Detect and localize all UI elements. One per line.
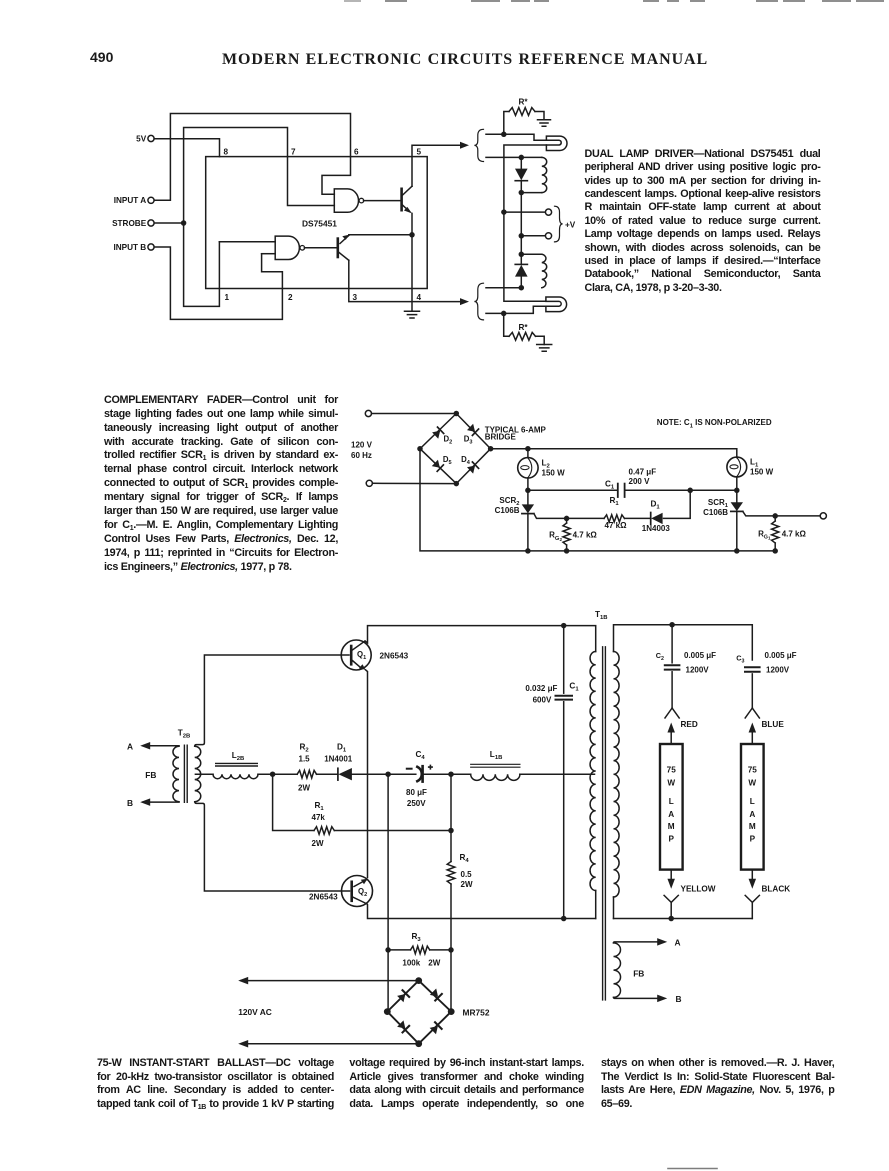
svg-text:D3: D3 [464,435,473,446]
svg-text:2W: 2W [428,958,440,967]
wire Q1 collector to top rail [365,626,596,652]
svg-text:R2: R2 [300,743,310,754]
wire to bridge left corner [387,950,389,1012]
ground pin 4 [405,311,420,318]
node C4 right / R4 branch [448,771,454,777]
wire +V lower with terminal [521,235,545,237]
svg-text:L2B: L2B [232,751,245,762]
svg-text:1.5: 1.5 [299,754,311,763]
connector YELLOW socket [664,895,678,918]
wire SCR2 gate [534,514,604,519]
svg-text:R3: R3 [412,932,422,943]
transistor Q2 (2N6543 lower) [342,876,373,907]
wire to keep-alive resistor R* bottom [504,313,509,336]
svg-text:0.032 μF: 0.032 μF [525,684,557,693]
svg-text:R1: R1 [315,801,325,812]
transformer T2B core [184,745,187,802]
svg-text:A: A [749,810,755,819]
svg-text:YELLOW: YELLOW [681,885,716,894]
lamp box 1 (75 W LAMP) [660,744,683,870]
wire junction down to D1 [664,490,691,518]
node R3 right [448,947,454,953]
resistor R1 (ballast) [314,827,334,835]
svg-text:200 V: 200 V [629,477,651,486]
svg-text:60 Hz: 60 Hz [351,451,372,460]
terminal AC top [365,410,371,416]
wire pin 6 to gate U1A input [322,157,351,195]
svg-text:C2: C2 [656,651,664,662]
svg-text:+V: +V [565,221,576,230]
winding FB (T1B) [614,943,621,998]
node L1 bottom [734,488,740,494]
svg-text:BLACK: BLACK [762,885,791,894]
connector BLUE socket [745,708,759,718]
svg-text:W: W [748,779,756,788]
node MR752 left [384,1008,391,1015]
wire right rail from T1B [614,625,753,660]
svg-text:L: L [669,797,674,806]
IC body DS75451 [206,157,428,289]
arrowhead to lamp 2 connector [460,298,469,305]
node bridge top [454,411,460,417]
transistor Q1 (2N6543 upper) [341,640,371,670]
svg-text:2: 2 [288,293,293,302]
brace +V [555,206,563,242]
node L2B/R2/R1 [270,771,276,777]
running head title [222,52,708,68]
node C1 bottom rail [561,916,567,922]
arrow feedback B out [143,801,179,803]
relay coil 2 [521,253,542,255]
wire U1B output to Q2 base [304,247,337,249]
diode MR752 lower-left [397,1020,409,1032]
AND gate U1B [275,236,299,259]
svg-text:STROBE: STROBE [112,219,147,228]
SCR1 [736,490,738,502]
svg-text:120V AC: 120V AC [238,1007,272,1017]
svg-text:INPUT A: INPUT A [114,196,147,205]
svg-text:A: A [668,810,674,819]
wire connector to lamp 1 top [486,134,546,140]
svg-text:C106B: C106B [495,506,520,515]
svg-text:C1: C1 [605,480,615,491]
lamp L2 [527,449,529,458]
wire lamp 1 return [504,145,547,212]
svg-text:W: W [667,779,675,788]
node lamp1 return rail [668,916,674,922]
resistor RG1 [774,516,776,521]
svg-text:0.5: 0.5 [461,870,473,879]
svg-text:L: L [750,797,755,806]
node emitter/ground junction [409,232,415,238]
wire Q2 collector to bottom rail [367,904,596,919]
wire strobe to pin 7 [184,128,288,224]
svg-text:RG1: RG1 [758,530,771,541]
capacitor C1 0.032uF [563,626,565,694]
wire AC line bottom arrow [241,1043,419,1045]
svg-text:FB: FB [145,770,156,780]
resistor R1 (fader) [604,515,625,522]
wire Q2 collector pin 3 to lamp 2 arrow [349,260,465,301]
resistor RG2 [566,518,568,523]
svg-text:INPUT B: INPUT B [113,243,146,252]
svg-text:RG2: RG2 [549,531,562,542]
svg-text:3: 3 [353,293,358,302]
caption: DUAL LAMP DRIVER [585,148,821,295]
diode D1 (fader) [650,513,652,525]
wire R1 branch down [273,774,314,830]
ground R* bottom [537,345,552,352]
arrowhead to lamp 1 connector [460,142,469,149]
node bridge left [417,446,423,452]
wire to keep-alive resistor R* top [504,112,509,135]
diode MR752 upper-left [397,990,409,1002]
arrow YELLOW lamp lead [670,870,672,882]
resistor R2 [297,770,316,778]
svg-text:MR752: MR752 [463,1007,490,1017]
svg-text:75: 75 [748,765,758,774]
svg-text:47k: 47k [312,813,326,822]
svg-text:L1B: L1B [490,750,503,761]
node SCR2 bottom [525,548,531,554]
terminal INPUT A [114,196,154,205]
bridge rectifier diamond [420,414,491,484]
svg-text:2N6543: 2N6543 [380,651,409,660]
core L1B [471,764,520,767]
capacitor C2 [671,625,673,663]
svg-text:M: M [749,822,756,831]
svg-text:1200V: 1200V [766,666,790,675]
wire C4 node down through R4 [450,774,452,861]
wire R3 right lead [430,949,451,951]
svg-text:0.47 μF: 0.47 μF [629,467,657,476]
arrow feedback A out [143,745,179,747]
svg-text:250V: 250V [407,799,426,808]
arrow BLUE lamp lead [749,723,757,733]
relay coil 1 [542,157,547,192]
node SCR1 bottom [734,548,740,554]
svg-text:M: M [668,822,675,831]
svg-text:4.7 kΩ: 4.7 kΩ [782,530,807,539]
wire L1B to T1B tap [520,773,595,775]
svg-text:D1: D1 [337,743,347,754]
svg-text:DS75451: DS75451 [302,219,337,229]
wire R4 to R3 [450,884,452,950]
wire relay1 to +V rail [520,193,522,236]
node gate RG2 [564,516,570,522]
terminal +V upper [545,209,551,215]
svg-text:0.005 μF: 0.005 μF [765,651,797,660]
wire STROBE [154,222,183,224]
svg-text:D1: D1 [651,500,661,511]
connector BLACK socket [745,895,759,918]
SCR2 [527,490,529,504]
svg-text:BLUE: BLUE [762,720,785,729]
wire C4 to L1B [424,773,471,775]
connector brace top [474,129,483,161]
svg-text:R4: R4 [460,853,470,864]
wire +V rail down to lamp 2 top [504,212,546,301]
bridge rectifier MR752 diamond [387,981,451,1044]
resistor R4 [447,862,455,885]
wire FB A arrow [614,942,660,943]
svg-text:2W: 2W [298,783,310,792]
svg-text:T1B: T1B [595,610,608,621]
AND gate U1A [334,189,358,212]
node relay2 bottom [519,285,525,291]
terminal gate [820,513,826,519]
lamp box 2 (75 W LAMP) [741,744,764,870]
diode MR752 upper-right [430,988,442,1000]
svg-text:100k: 100k [402,958,420,967]
wire U1A output to Q1 base [364,200,402,202]
svg-text:2W: 2W [461,880,473,889]
wire shared emitter line [349,234,412,236]
wire to relay 2 top [520,236,522,255]
wire pin 1 to gate U1B input [219,241,275,243]
svg-text:7: 7 [291,148,296,157]
wire R1 to D1 [625,517,651,519]
wire pin 7 to gate U1A input [288,157,335,206]
node MR752 bottom [415,1040,422,1047]
terminal INPUT B [113,243,154,252]
wire 5V to pin 8 [154,139,219,157]
capacitor C4 [417,767,422,781]
node +V lower [519,233,525,239]
wire T2B bottom to Q2 base [195,802,350,891]
wire T2B center tap to L2B [195,773,213,775]
node RG1 bottom [772,548,778,554]
node MR752 right [448,1008,455,1015]
wire T2B top to Q1 base [195,655,349,746]
lamp 1 (incandescent) [546,136,567,150]
ground R* top [538,120,551,126]
node bridge right [488,446,494,452]
node relay1 bottom [519,190,525,196]
node main line / bridge branch [385,771,391,777]
svg-text:150 W: 150 W [750,468,774,477]
svg-text:120 V: 120 V [351,441,373,450]
node R1/R4 [448,828,454,834]
transformer T2B left winding [173,746,179,801]
wire R1 to R4 node [334,830,451,832]
svg-text:C4: C4 [416,750,426,761]
svg-text:Q2: Q2 [358,887,367,898]
capacitor C3 [745,667,760,671]
svg-text:75: 75 [667,765,677,774]
svg-text:R*: R* [518,98,528,107]
wire top rail [491,449,737,458]
capacitor C1 (fader) [617,484,619,497]
wire bridge left to bottom rail [420,449,775,551]
svg-text:1N4001: 1N4001 [324,754,353,763]
svg-text:D2: D2 [444,435,453,446]
node R3 left [385,947,391,953]
node relay 1 top [519,155,525,161]
node lamp1 return at +V [501,209,507,215]
wire pin 2 to gate U1B input [262,253,276,255]
lamp L1 [727,457,747,477]
node C1/D1 junction [687,488,693,494]
node L2 bottom / C1 line [525,488,531,494]
svg-text:D5: D5 [443,455,452,466]
resistor R* (top) [509,108,535,116]
top edge scan marks [345,0,883,2]
wire bridge branch down [387,774,389,950]
wire strobe to pin 1 [184,223,220,306]
wire Q1 emitter to ground node [411,213,413,234]
node lamp2 return / R* [501,311,507,317]
node C2 top [669,622,675,628]
svg-text:B: B [676,994,682,1004]
wire C1 right [626,489,737,491]
svg-text:Q1: Q1 [357,650,366,661]
svg-text:R*: R* [518,323,528,332]
label C4 polarity [407,768,412,770]
svg-text:BRIDGE: BRIDGE [485,433,517,442]
arrow RED lamp lead [667,723,675,733]
wire Q1 collector to pin 5 lamp arrow [412,145,465,186]
diode D2 [432,427,444,439]
diode D5 [432,460,444,472]
svg-text:5: 5 [417,148,422,157]
svg-text:150 W: 150 W [542,469,566,478]
svg-text:NOTE: C1 IS NON-POLARIZED: NOTE: C1 IS NON-POLARIZED [657,418,772,429]
caption col 3 [601,1057,835,1111]
wire R2 to D1 [317,773,338,775]
node C1 top (ballast) [561,623,567,629]
wire connector to relay 1 [486,156,542,158]
diode D3 [467,424,479,436]
node bridge bottom [454,481,460,487]
transformer T1B left winding [590,652,596,891]
node RG2 bottom [564,548,570,554]
wire lamp 2 return to connector [486,306,546,313]
transformer T1B right winding [614,651,620,897]
page number [90,50,113,64]
svg-text:C3: C3 [736,654,744,665]
terminal 5V [136,134,154,143]
transistor Q2 (lower output) [338,235,349,260]
connector RED socket [665,708,679,718]
svg-text:4: 4 [417,293,422,302]
svg-text:4.7 kΩ: 4.7 kΩ [573,531,598,540]
wire AC bottom to bridge [373,482,457,484]
wire relay1 bottom [521,192,542,194]
wire relay2 bottom to connector [486,287,521,289]
svg-text:1: 1 [225,293,230,302]
transformer T2B right winding [195,746,201,801]
svg-text:8: 8 [224,148,229,157]
svg-text:A: A [675,937,681,947]
wire SCR1 gate [743,511,820,516]
wire bottom rail to lamps [614,918,753,920]
node lamp1/R* junction [501,132,507,138]
wire R* to ground [535,112,544,120]
wire AC top to bridge [372,413,457,415]
diode D-relay1 (across solenoid) [515,157,528,192]
arrow BLACK lamp lead [751,870,753,882]
node strobe junction [181,220,187,226]
wire D1 to C4 [352,773,416,775]
caption col 2 [349,1057,584,1111]
svg-text:P: P [750,835,756,844]
wire INPUT A to pin 6 [154,114,350,201]
wire R* bottom to ground [536,336,545,344]
svg-text:P: P [668,835,674,844]
resistor R* (bottom) [509,332,536,340]
terminal +V lower [545,233,551,239]
wire FB B arrow [614,997,660,998]
svg-text:C106B: C106B [703,508,728,517]
wire R3 left lead [388,949,410,951]
caption: 75-W INSTANT-START BALLAST col 1 [97,1057,334,1111]
wire node to R2 [273,773,298,775]
transistor Q1 (upper output) [402,186,412,213]
wire C1 line left [528,489,617,491]
node relay2 top [519,252,525,257]
svg-text:2W: 2W [312,839,324,848]
svg-text:5V: 5V [136,134,147,143]
wire INPUT B to pin 2 [154,247,282,319]
terminal STROBE [112,219,154,228]
svg-text:D4: D4 [461,455,471,466]
svg-text:0.005 μF: 0.005 μF [684,651,716,660]
svg-text:6: 6 [354,148,359,157]
svg-text:A: A [127,741,133,751]
transformer T1B core [603,647,606,1000]
wire to bridge right corner [450,950,452,1012]
connector brace bottom [474,283,483,320]
diode D-relay2 (across solenoid) [515,254,528,287]
wire +V upper with terminal [504,211,545,213]
node MR752 top [415,977,422,984]
terminal AC bottom [366,480,372,486]
svg-text:47 kΩ: 47 kΩ [605,521,628,530]
svg-text:FB: FB [633,969,644,979]
caption: COMPLEMENTARY FADER [104,394,338,575]
svg-text:600V: 600V [533,696,552,705]
inductor L2B [213,774,258,779]
wire pin 4 to ground [411,235,413,311]
svg-text:1N4003: 1N4003 [642,524,671,533]
bottom edge scan mark [668,1168,717,1170]
wire AC line top arrow [241,980,419,982]
wire L2B to node [258,773,273,775]
node gate RG1 [772,513,778,519]
svg-text:1200V: 1200V [686,666,710,675]
inductor L1B [471,774,520,780]
svg-text:2N6543: 2N6543 [309,893,338,902]
svg-text:C1: C1 [569,682,579,693]
diode MR752 lower-right [430,1022,442,1034]
lamp 2 (incandescent) [546,297,567,312]
wire Q1 emitter to Q2 [366,670,368,878]
svg-text:RED: RED [681,720,698,729]
svg-text:80 μF: 80 μF [406,788,427,797]
node L2 top [525,446,531,452]
svg-text:B: B [127,798,133,808]
resistor R3 [411,946,430,954]
core L2B [216,763,258,766]
diode D1 (ballast) [337,768,339,780]
svg-text:T2B: T2B [178,729,191,740]
diode D4 [467,462,479,474]
